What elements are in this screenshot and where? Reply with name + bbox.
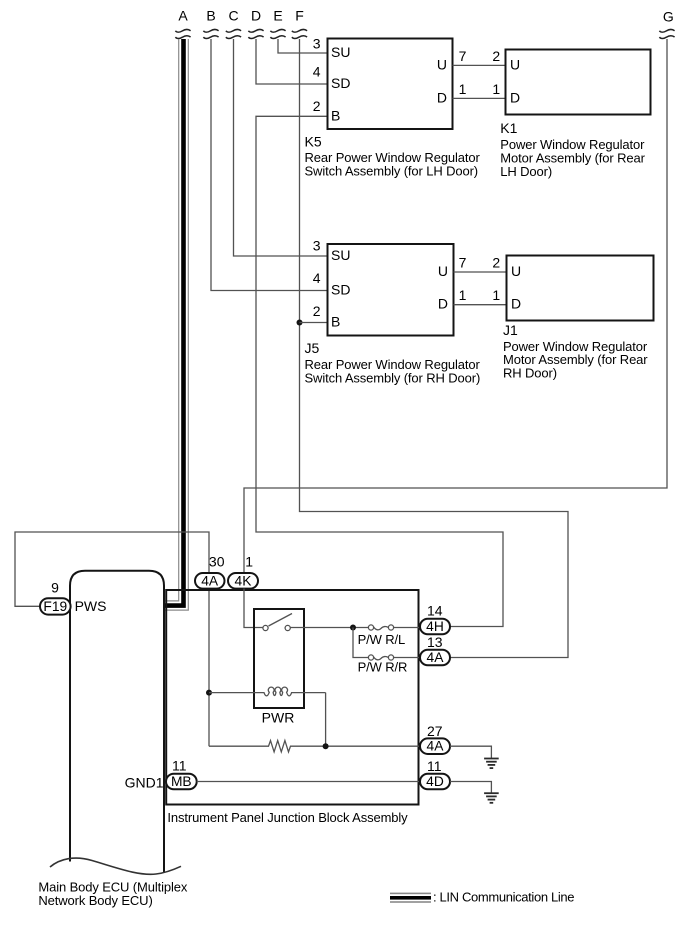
svg-text:SD: SD [331, 75, 350, 91]
svg-text:14: 14 [427, 603, 443, 619]
node junction on F at J5 B [297, 320, 303, 326]
svg-text:D: D [251, 8, 261, 24]
svg-text:1: 1 [245, 554, 253, 570]
wire 4A-30 down inside block to coil node and resistor row [208, 589, 210, 747]
wire relay switch output to contacts node [290, 627, 368, 629]
wire coil return to resistor node [325, 693, 327, 747]
break symbol G [659, 29, 674, 38]
svg-text:1: 1 [459, 81, 467, 97]
connector 4A-13 oval [420, 650, 450, 666]
svg-text:: LIN Communication Line: : LIN Communication Line [433, 889, 574, 904]
connector MB oval [166, 774, 197, 790]
svg-text:3: 3 [313, 238, 321, 254]
svg-text:J5: J5 [305, 340, 320, 356]
break symbol B [203, 29, 218, 38]
wire PWS F19 loop to junction block pin 30 (4A) [15, 532, 209, 606]
ground for pin 27 [484, 759, 499, 769]
svg-text:30: 30 [209, 554, 225, 570]
Main Body ECU torn bottom edge [50, 858, 181, 874]
svg-text:1: 1 [459, 287, 467, 303]
node coil feed junction [206, 690, 212, 696]
op switch K5 box [328, 39, 453, 130]
svg-text:B: B [331, 314, 340, 330]
svg-text:C: C [228, 8, 238, 24]
svg-text:K1: K1 [500, 120, 517, 136]
svg-text:2: 2 [492, 255, 500, 271]
svg-text:SU: SU [331, 247, 350, 263]
svg-text:U: U [438, 263, 448, 279]
connector 4D oval [420, 774, 450, 790]
wire J5 D to J1 D [454, 304, 507, 306]
svg-text:B: B [331, 107, 340, 123]
svg-text:F: F [295, 8, 304, 24]
wire C to J5 SU [234, 39, 328, 256]
svg-text:13: 13 [427, 634, 443, 650]
svg-text:D: D [437, 89, 447, 105]
wire 4A-27 to ground [450, 746, 491, 758]
contact P/W R/R [368, 655, 420, 660]
svg-text:A: A [178, 8, 188, 24]
wire 4K down to relay switch [244, 589, 263, 628]
svg-text:1: 1 [492, 81, 500, 97]
relay switch blade [269, 614, 293, 627]
connector 4A-30 oval [195, 573, 225, 589]
contact P/W R/L [368, 625, 420, 630]
svg-text:11: 11 [427, 758, 442, 774]
wire LIN communication line A (gray-black-gray), into Main Body ECU [164, 39, 188, 610]
svg-text:3: 3 [313, 36, 321, 52]
resistor [209, 741, 420, 752]
svg-text:PWR: PWR [262, 710, 295, 726]
svg-text:Instrument Panel Junction Bloc: Instrument Panel Junction Block Assembly [167, 810, 408, 825]
svg-text:LH Door): LH Door) [500, 164, 552, 179]
svg-text:9: 9 [51, 580, 59, 596]
ground for pin 11 [484, 793, 499, 803]
svg-text:D: D [438, 296, 448, 312]
wire K5 U to K1 U [453, 64, 507, 66]
svg-text:7: 7 [459, 48, 467, 64]
break symbol E [270, 29, 285, 38]
svg-text:F19: F19 [43, 599, 67, 614]
svg-text:P/W R/R: P/W R/R [358, 659, 408, 674]
wire 4D to ground [450, 782, 491, 793]
node resistor output junction [323, 743, 329, 749]
legend LIN communication line symbol [390, 893, 431, 903]
wire K5 B to junction block pin 14 (4H) via x504 [256, 116, 503, 626]
svg-text:Network Body ECU): Network Body ECU) [38, 893, 152, 908]
svg-text:2: 2 [492, 48, 500, 64]
svg-text:G: G [663, 9, 674, 25]
svg-text:PWS: PWS [75, 598, 107, 614]
wire F down to junction block pin 13 via x568 [300, 39, 569, 658]
svg-text:SU: SU [331, 44, 350, 60]
wire K5 D to K1 D [453, 97, 507, 99]
connector 4A-27 oval [420, 738, 450, 754]
svg-text:U: U [510, 56, 520, 72]
svg-text:J1: J1 [503, 322, 518, 338]
svg-text:Switch Assembly (for RH Door): Switch Assembly (for RH Door) [305, 371, 481, 386]
node contact branch [350, 625, 356, 631]
wire G to junction block pin 1 (4K) [244, 39, 667, 573]
break symbol C [226, 29, 241, 38]
svg-text:4D: 4D [426, 774, 444, 789]
wire B to J5 SD [211, 39, 327, 291]
svg-text:D: D [510, 89, 520, 105]
svg-text:P/W R/L: P/W R/L [358, 632, 406, 647]
op switch J5 box [328, 244, 454, 336]
svg-text:4: 4 [313, 270, 321, 286]
svg-text:4A: 4A [427, 739, 445, 754]
svg-text:E: E [273, 8, 282, 24]
connector 4K oval [228, 573, 258, 589]
relay PWR box [254, 609, 304, 708]
motor K1 box [506, 50, 651, 115]
wire J5 B pin from junction [300, 322, 328, 324]
svg-text:U: U [437, 56, 447, 72]
svg-text:B: B [206, 8, 215, 24]
wire D to K5 SD [256, 39, 327, 84]
svg-text:11: 11 [172, 758, 187, 774]
connector F19 oval [40, 598, 71, 614]
svg-text:4H: 4H [426, 619, 444, 634]
svg-text:RH Door): RH Door) [503, 366, 557, 381]
motor J1 box [507, 256, 654, 321]
wire to relay coil [209, 692, 254, 694]
svg-text:4: 4 [313, 64, 321, 80]
svg-text:4K: 4K [235, 573, 253, 588]
wire MB to 4D [197, 781, 420, 783]
svg-text:4A: 4A [201, 573, 219, 588]
svg-text:GND1: GND1 [125, 775, 164, 791]
break symbol A [175, 29, 190, 38]
svg-text:Switch Assembly (for LH Door): Switch Assembly (for LH Door) [305, 164, 479, 179]
Main Body ECU box [70, 571, 164, 873]
svg-text:1: 1 [492, 287, 500, 303]
svg-text:2: 2 [313, 303, 321, 319]
break symbol F [292, 29, 307, 38]
Instrument Panel Junction Block box [166, 590, 418, 805]
relay coil PWR [254, 687, 326, 696]
svg-text:K5: K5 [305, 133, 322, 149]
svg-text:D: D [511, 296, 521, 312]
wire branch down to P/W R/R row [353, 628, 368, 658]
svg-text:MB: MB [171, 774, 192, 789]
wire E to K5 SU [278, 39, 327, 53]
svg-text:U: U [511, 263, 521, 279]
svg-text:27: 27 [427, 723, 443, 739]
svg-text:4A: 4A [427, 650, 445, 665]
svg-text:SD: SD [331, 282, 350, 298]
wire J5 U to J1 U [454, 271, 507, 273]
connector 4H oval [420, 619, 450, 635]
break symbol D [248, 29, 263, 38]
relay switch contacts [263, 625, 268, 630]
svg-text:2: 2 [313, 98, 321, 114]
svg-text:7: 7 [459, 255, 467, 271]
